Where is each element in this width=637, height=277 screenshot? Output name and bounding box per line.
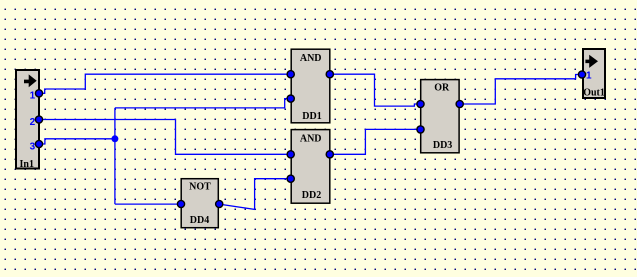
DD4 output pin: [216, 200, 223, 207]
Out1 pin 1: [578, 71, 585, 78]
svg-text:DD4: DD4: [190, 215, 209, 226]
DD1 input pin 1: [287, 71, 294, 78]
OR gate DD3: [421, 80, 459, 153]
DD2 input pin 2: [287, 175, 294, 182]
DD2 input pin 1: [287, 151, 294, 158]
In1 pin 2: [35, 116, 42, 123]
svg-text:AND: AND: [300, 53, 322, 64]
DD2 output pin: [326, 151, 333, 158]
AND gate DD2: [291, 130, 330, 204]
wire net5: DD1 output to DD3 input1: [330, 74, 421, 106]
svg-text:Out1: Out1: [583, 87, 605, 98]
svg-text:In1: In1: [20, 159, 34, 170]
wire net3 segment: junction A to DD1 input2: [115, 99, 291, 108]
wire net4: DD4 output to DD2 input2: [219, 179, 291, 210]
DD3 input pin 2: [417, 126, 424, 133]
In1 pin 1: [35, 90, 42, 97]
DD1 output pin: [326, 71, 333, 78]
wire net3 segment: junction A to DD4 input: [115, 203, 181, 205]
output port block Out1: [583, 49, 605, 98]
svg-text:1: 1: [30, 91, 36, 102]
Out1 arrow icon: [585, 55, 598, 68]
wire net2: In1 pin2 to DD2 input1: [39, 120, 291, 155]
DD4 input pin: [177, 200, 184, 207]
DD3 output pin: [456, 100, 463, 107]
svg-text:DD1: DD1: [302, 111, 321, 122]
AND gate DD1: [291, 49, 330, 123]
svg-text:DD2: DD2: [302, 190, 321, 201]
svg-text:AND: AND: [300, 133, 322, 144]
wire net3 vertical segment through junction A: [114, 108, 116, 204]
In1 arrow icon: [24, 74, 37, 87]
wire net6: DD2 output to DD3 input2: [330, 129, 421, 154]
svg-text:1: 1: [586, 71, 592, 82]
svg-text:2: 2: [30, 117, 36, 128]
svg-text:NOT: NOT: [189, 182, 211, 193]
DD3 input pin 1: [417, 100, 424, 107]
svg-text:3: 3: [30, 141, 36, 152]
svg-text:DD3: DD3: [433, 140, 452, 151]
input port block In1: [16, 70, 39, 169]
wire net3 segment: In1 pin3 to junction A: [39, 139, 115, 144]
DD1 input pin 2: [287, 95, 294, 102]
wire net1: In1 pin1 to DD1 input1: [39, 74, 291, 93]
junction A node dot: [111, 135, 118, 142]
svg-text:OR: OR: [434, 83, 450, 94]
NOT gate DD4: [181, 179, 218, 228]
In1 pin 3: [35, 140, 42, 147]
wire net7: DD3 output to Out1 pin1: [460, 75, 582, 105]
